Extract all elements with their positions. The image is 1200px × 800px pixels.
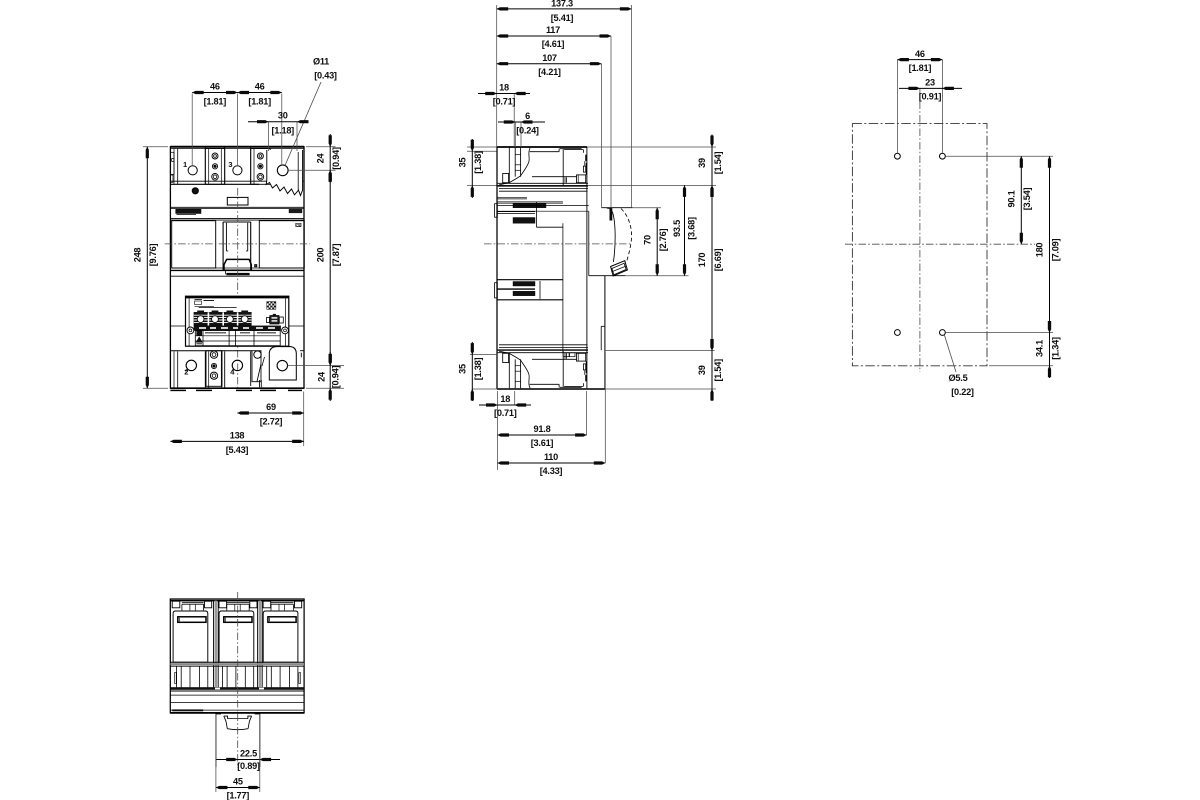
dimension 30 (front) [248,121,309,123]
bottom fins row [170,661,304,663]
side din tab upper [497,196,527,198]
front bottom strip top line [170,350,252,352]
drill vertical centerline [919,88,921,372]
side din clip noses [495,204,498,218]
svg-text:137.3: 137.3 [551,0,573,8]
drill leader bottom right [945,332,1053,334]
side bottom anchor ext [472,388,716,390]
dimension 46 left (front) [192,92,237,94]
front ext line hole top [281,94,283,165]
svg-text:[3.61]: [3.61] [531,438,554,448]
front ext line 69 dim [303,392,305,447]
drill hole top left [895,153,901,159]
svg-text:46: 46 [915,49,925,59]
front terminal 3 circle [233,166,242,175]
svg-text:24: 24 [317,371,327,382]
front toggle opening [222,222,224,270]
front top strip separators [177,149,179,185]
front mounting hole bottom (Ø11) [277,360,287,370]
side handle grip [611,261,628,276]
trip unit right screw [282,327,289,334]
svg-text:110: 110 [544,452,558,462]
side left ext top dims [496,5,498,147]
dimension 24 top right (front) [329,134,331,183]
drill plate outline [852,124,987,366]
front terminal 1 circle [188,166,197,175]
bottom pole 1 recess [173,611,208,662]
bottom ext 45 left [215,714,217,792]
front horizontal centerline [165,243,310,245]
dimension 6 (side) [498,121,545,123]
svg-text:[7.87]: [7.87] [331,244,341,267]
front view top edge inner line [170,148,304,150]
drill leader top right [945,155,1053,157]
dimension 18 bottom (side) [479,404,531,406]
side top anchor line [467,146,716,148]
side ext 6 [514,122,516,147]
svg-text:69: 69 [266,402,276,412]
side centerline [484,243,632,245]
svg-text:18: 18 [500,394,510,404]
trip unit logo marks [195,299,203,301]
svg-text:[5.41]: [5.41] [551,13,574,23]
front ext line term1 [191,94,193,166]
svg-text:91.8: 91.8 [534,424,551,434]
svg-text:[6.69]: [6.69] [713,249,723,272]
side body top edge [497,146,587,148]
svg-text:[1.18]: [1.18] [271,126,294,136]
trip unit box [186,296,289,346]
drill horizontal centerline [845,243,1035,245]
side 35-39 anchor line [467,184,716,186]
side ext 107 [600,64,602,208]
svg-text:[0.71]: [0.71] [494,408,517,418]
front 3VA marking [289,209,302,213]
dimension 90.1 (drill) [1020,156,1022,244]
svg-text:[1.77]: [1.77] [227,791,250,800]
trip unit table [195,331,280,346]
dimension 46 right (front) [238,92,282,94]
svg-text:[4.21]: [4.21] [538,67,561,77]
front lower lines [172,267,304,269]
trip unit divider line [199,306,237,308]
side ext 117 [610,36,612,207]
front ext line bottom left [143,387,168,389]
side body back edge [496,147,498,389]
bottom ext 45 right [259,714,261,792]
front mounting hole top (Ø11) [277,165,288,176]
svg-text:200: 200 [315,248,325,263]
front view body outline [170,147,304,389]
drill ext right hole [941,60,943,153]
side escutcheon bottom ledge [589,275,626,277]
dimension 117 (side) [497,35,611,37]
svg-text:248: 248 [133,248,143,263]
drill ext plate bottom [989,365,1053,367]
side ext 18 bottom [514,391,516,405]
bottom view top edge [170,600,304,602]
bottom pole 3 recess [263,611,298,662]
front leader hole bottom right [288,364,345,366]
svg-text:[0.94]: [0.94] [331,147,341,170]
svg-text:Ø5.5: Ø5.5 [949,373,968,383]
svg-text:[1.34]: [1.34] [1050,337,1060,360]
front ce mark [296,223,301,226]
svg-text:[1.38]: [1.38] [473,151,483,174]
svg-text:[0.91]: [0.91] [919,92,942,102]
svg-text:90.1: 90.1 [1007,190,1017,207]
side 35 top ext [467,150,497,152]
svg-text:[0.22]: [0.22] [951,387,974,397]
side bottom small rects [563,353,569,357]
side case front plane [586,147,588,389]
svg-text:35: 35 [458,364,468,374]
side din tab lower [497,279,563,281]
svg-text:[3.68]: [3.68] [687,217,697,240]
svg-text:[1.81]: [1.81] [909,63,932,73]
front clamp block A [205,149,224,185]
drill hole bottom right [940,330,946,336]
svg-text:39: 39 [697,365,707,375]
dimension 70 (side) [656,208,658,276]
dimension 138 (front) [170,440,303,442]
front ext line top left [143,146,168,148]
dimension 23 (drill) [899,87,962,89]
svg-text:107: 107 [542,53,557,63]
front terminal 4 circle [232,360,242,370]
front ext line top right [306,146,336,148]
svg-text:22.5: 22.5 [240,749,257,759]
side handle swing arc dashed [621,209,632,262]
dimension 107 (side) [497,63,602,65]
svg-text:[2.72]: [2.72] [260,417,283,427]
side ext 18 top [513,94,515,148]
front ext lines 30 dim [268,122,270,151]
front body line at trip unit [170,325,304,327]
svg-text:18: 18 [499,83,509,93]
dimension 35 bottom (side) [471,342,473,401]
trip unit black bar [194,326,281,331]
side front lower face [604,276,606,389]
front ext line term3 [237,94,239,166]
trip unit dial row [194,312,252,325]
svg-text:6: 6 [525,111,530,121]
dimension 18 top (side) [478,93,530,95]
svg-text:1: 1 [183,160,187,169]
drill hole leader Ø5.5 [944,335,956,372]
svg-text:35: 35 [458,158,468,168]
svg-text:[4.33]: [4.33] [540,466,563,476]
svg-text:[0.71]: [0.71] [493,97,516,107]
front ext line bottom right [306,387,344,389]
svg-text:[1.54]: [1.54] [713,359,723,382]
front toggle grip [224,259,251,270]
trip unit qr code [267,302,276,310]
svg-text:46: 46 [210,81,220,91]
dimension 110 (side) [498,462,606,464]
svg-text:93.5: 93.5 [672,220,682,237]
front cutaway jag lines [257,364,261,382]
svg-text:Ø11: Ø11 [313,57,329,67]
svg-text:[7.09]: [7.09] [1050,239,1060,262]
dimension 46 (drill) [897,59,942,61]
dimension 24 bottom right (front) [329,352,331,401]
dimension 34.1 (drill) [1049,320,1051,378]
svg-text:30: 30 [278,111,288,121]
trip unit warning triangles [197,331,202,335]
dimension 39 bottom (side) [711,338,713,401]
front bottom strip separators [177,351,179,389]
svg-text:[0.89]: [0.89] [237,761,260,771]
drill hole bottom left [895,330,901,336]
svg-text:[4.61]: [4.61] [542,39,565,49]
front small square [255,265,257,267]
side collar top ext for 70 dim [633,207,662,209]
svg-text:[3.54]: [3.54] [1022,188,1032,211]
front bottom edge [170,387,304,389]
side ext 137.3 [630,5,632,208]
bottom centerline [237,592,239,768]
svg-text:34.1: 34.1 [1035,340,1045,357]
svg-text:[9.76]: [9.76] [148,244,158,267]
side bottom edge [497,388,605,390]
side bottom terminal block [498,345,588,389]
dimension 39 top (side) [711,135,713,199]
side bottom anchor line [604,350,714,352]
svg-text:170: 170 [697,253,707,268]
svg-text:3: 3 [228,160,232,169]
bottom pole separator 1 [213,601,215,688]
front left edge details [170,152,174,174]
front bottom clamp block A [206,351,222,387]
front ear feet [259,380,261,387]
bottom pole 2 recess [219,611,254,662]
side top terminal block [498,147,588,191]
svg-text:[0.94]: [0.94] [330,366,340,389]
side escutcheon rear face [588,211,590,276]
dimension 69 (front) [237,412,303,414]
dimension 45 (bottom) [216,787,260,789]
front mid lines [170,206,304,208]
side recess vertical [562,223,564,352]
dimension 248 (front) [146,147,148,389]
trip unit inner verticals [188,296,190,346]
bottom pole separator 2 [257,601,259,688]
side ledge ext for 70-93.5 dims [625,275,688,277]
svg-text:117: 117 [546,25,560,35]
svg-text:2: 2 [184,367,188,376]
front leader hole right [288,169,335,171]
bottom dark row [170,687,304,689]
svg-text:138: 138 [230,431,245,441]
svg-text:23: 23 [925,78,935,88]
side left ext bottom dims [497,391,499,470]
dimension 22.5 (bottom) [216,759,280,761]
side handle upper position [610,209,613,221]
front bottom clamp block partial [252,351,261,382]
bottom left black mark [172,709,203,711]
front clamp block B [251,149,270,185]
svg-text:46: 46 [255,81,265,91]
front toggle left panel [172,221,216,268]
trip unit cell marks [205,332,226,334]
svg-text:[0.43]: [0.43] [314,71,337,81]
front top-right cutaway plate [266,150,302,196]
bottom foot outline [216,713,260,767]
front view top edge [170,146,304,148]
svg-text:70: 70 [642,235,652,245]
svg-text:[1.81]: [1.81] [248,96,271,106]
svg-text:[1.54]: [1.54] [713,152,723,175]
svg-text:39: 39 [697,158,707,168]
front leader line to hole [285,82,321,166]
front toggle right panel [259,221,304,268]
svg-text:[0.24]: [0.24] [516,126,539,136]
svg-text:24: 24 [315,153,325,164]
svg-text:[5.43]: [5.43] [226,445,249,455]
trip unit connector [267,318,270,323]
dimension 137.3 (side) [497,8,632,10]
dimension 170 (side) [711,185,713,350]
front toggle window [227,197,248,205]
front small knob [192,188,198,194]
dimension 35 top (side) [471,139,473,198]
side mid seam lines [497,201,563,203]
trip unit left screw [187,327,194,334]
svg-text:180: 180 [1035,243,1045,258]
dimension 200 (front) [329,170,331,365]
side front step [600,326,602,350]
front bottom feet [170,389,186,391]
front vertical centerline [237,188,239,390]
side bottom left ext [470,354,497,356]
trip unit top edge [186,296,289,298]
front bottom-right mounting ear [269,347,296,381]
front label strip black bar [176,209,201,213]
svg-text:45: 45 [233,777,243,787]
side ext 91.8 [586,391,588,435]
dimension 180 (drill) [1049,156,1051,332]
svg-text:[1.38]: [1.38] [473,358,483,381]
front terminal strip lower lines [170,180,304,182]
bottom top slot row [172,601,180,608]
bottom foot inner [224,716,252,719]
bottom bottom edge [170,712,304,714]
drill ext left hole [896,60,898,153]
svg-text:[1.81]: [1.81] [204,96,227,106]
svg-text:[2.76]: [2.76] [658,229,668,252]
side handle inner arc [612,212,615,263]
bottom lower lines [170,690,304,692]
drill hole top right [940,153,946,159]
front terminal 2 circle [186,360,196,370]
side escutcheon collar top [601,207,632,209]
dimension 93.5 (side) [684,185,686,275]
bottom view outline [170,599,304,713]
side ext 110 [604,352,606,463]
dimension 91.8 (side) [498,434,587,436]
